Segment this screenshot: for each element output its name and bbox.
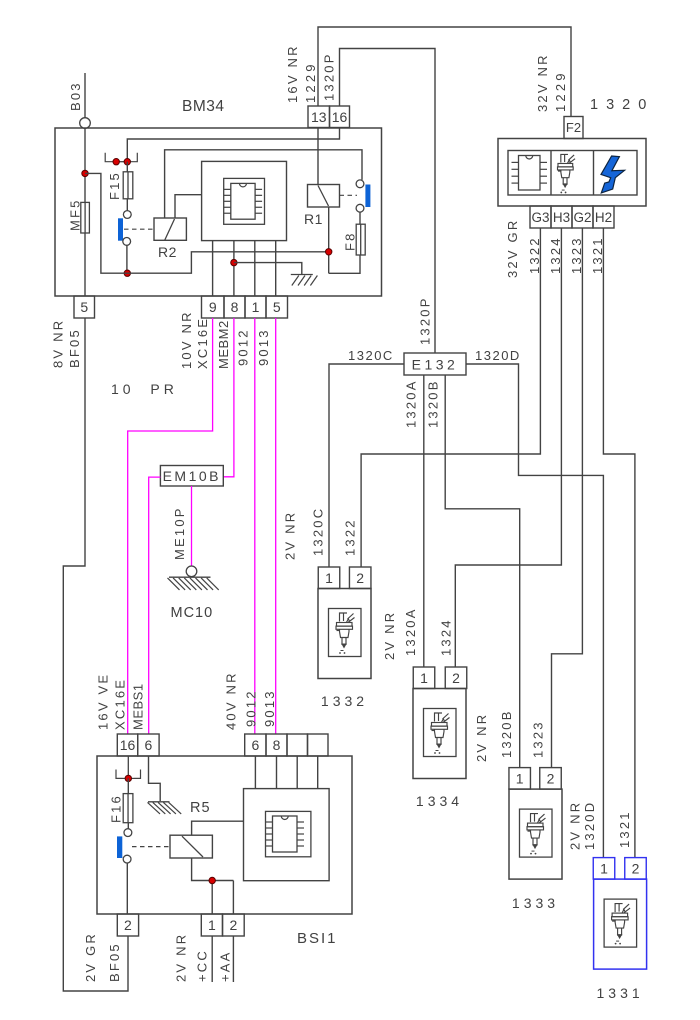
label 1323 at G2: [569, 236, 584, 274]
svg-text:1: 1: [600, 860, 608, 876]
svg-text:40V NR: 40V NR: [224, 671, 239, 730]
splice box E132: [404, 353, 466, 375]
relay R5: [170, 835, 212, 858]
svg-text:2: 2: [452, 670, 460, 686]
svg-text:1320A: 1320A: [403, 607, 418, 656]
label 8V NR: [50, 319, 65, 368]
label 9013 top: [256, 328, 271, 366]
dashed actuator link R2 to switch: [124, 228, 154, 230]
splice EM10B: [160, 466, 223, 487]
label B03: [68, 81, 83, 111]
junction dot F15 terminal left: [113, 159, 119, 165]
label ME10P: [172, 506, 187, 560]
svg-text:16V VE: 16V VE: [95, 673, 110, 730]
ground symbol inside BM34: [291, 275, 318, 286]
svg-text:32V NR: 32V NR: [535, 53, 550, 112]
svg-text:H2: H2: [595, 210, 612, 225]
svg-text:13: 13: [311, 109, 327, 125]
wire R5 coil to module: [192, 821, 244, 835]
svg-text:9: 9: [209, 299, 217, 315]
pin 1 of BM34: [245, 296, 266, 318]
wire 1320D from E132 to injector 1331: [466, 364, 603, 858]
wire switch bottom to bus: [126, 245, 128, 273]
wire R1 switch to F8: [359, 212, 361, 224]
svg-text:R5: R5: [190, 800, 211, 816]
label 1322 at G3: [527, 236, 542, 274]
wire R1 coil bottom to junction: [328, 207, 330, 273]
label 1323 at 1333: [531, 720, 546, 758]
label 40V NR: [224, 671, 239, 730]
svg-text:1320D: 1320D: [582, 801, 597, 850]
svg-text:H3: H3: [553, 210, 570, 225]
dashed actuator link R1 to switch: [340, 194, 358, 196]
label R2: [158, 244, 177, 260]
label 10 PR: [111, 381, 178, 397]
svg-text:1320C: 1320C: [348, 348, 394, 363]
wire 1320A from E132 to injector 1334: [423, 375, 425, 667]
svg-text:2V NR: 2V NR: [174, 933, 189, 982]
ECU box BSI1: [97, 756, 352, 914]
label 10V NR: [179, 310, 194, 369]
wire R5 bottom to pins 1 2: [192, 858, 234, 914]
svg-text:9013: 9013: [262, 689, 277, 727]
wire +AA from pin 2: [232, 936, 234, 982]
label MEBS1: [130, 683, 145, 730]
injector icon in 1320: [558, 154, 576, 193]
label 1321 at H2: [590, 236, 605, 274]
svg-text:1: 1: [420, 670, 428, 686]
label F15: [107, 171, 122, 200]
wire pin13 to relay R1 coil: [317, 128, 319, 185]
label 1320B at 1333: [499, 709, 514, 758]
wire 1322 from G3 to injector 1332: [361, 228, 540, 567]
svg-text:2V NR: 2V NR: [474, 713, 489, 762]
label R1: [304, 211, 323, 227]
lightning bolt icon: [601, 156, 625, 193]
pin 5b of BM34: [266, 296, 288, 318]
svg-text:F16: F16: [108, 794, 123, 823]
pin 1 of BSI1 bottom: [201, 914, 222, 936]
svg-text:2V NR: 2V NR: [382, 611, 397, 660]
svg-text:1320C: 1320C: [311, 507, 326, 556]
svg-text:XC16E: XC16E: [112, 678, 127, 730]
svg-text:1: 1: [208, 917, 216, 933]
pin 6b of BSI1: [245, 734, 266, 756]
label +CC: [195, 949, 210, 982]
svg-text:2V NR: 2V NR: [567, 801, 582, 850]
svg-text:6: 6: [251, 737, 259, 753]
ground symbol MC10: [168, 577, 219, 590]
label XC16E at BSI1: [112, 678, 127, 730]
label 2V NR at 1334: [382, 611, 397, 660]
label 16V NR: [285, 44, 300, 103]
pin F2 of 1320: [564, 117, 583, 139]
module output wires to pins 9 8 1 5: [213, 241, 276, 296]
label 1320D at 1331: [582, 801, 597, 850]
svg-text:MEBS1: MEBS1: [130, 683, 145, 730]
F16 switch contact top: [124, 829, 132, 837]
pin H3 of 1320: [551, 206, 572, 228]
pin blank2 of BSI1: [308, 734, 329, 756]
svg-text:R1: R1: [304, 211, 323, 227]
svg-text:BM34: BM34: [182, 98, 225, 115]
label 1320P at E132: [418, 296, 433, 345]
pin G3 of 1320: [530, 206, 551, 228]
wire 1323 from G2 to injector 1333: [552, 228, 583, 768]
switch contact bottom (F15): [123, 238, 131, 246]
switch contact top (F15): [123, 211, 131, 219]
label MEBM2: [216, 320, 231, 369]
wire BF05 from BM34 pin5 to BSI1 pin2: [63, 318, 128, 991]
inner module frame BSI1: [266, 811, 311, 856]
svg-text:1321: 1321: [617, 810, 632, 848]
fuse MF5 on B03 feed: [81, 129, 90, 297]
wire B03 supply: [84, 73, 86, 118]
label +AA: [218, 950, 233, 982]
svg-text:1320B: 1320B: [426, 379, 441, 428]
svg-text:8V NR: 8V NR: [50, 319, 65, 368]
label 1324 at H3: [548, 236, 563, 274]
label 9012 at BSI1: [244, 689, 259, 727]
wire 9012 pink from pin 1 to BSI1 pin 6: [254, 318, 256, 734]
wire 1321 from H2 to injector 1331: [603, 228, 635, 858]
wire pin 6 to internal ground: [149, 756, 161, 801]
svg-text:10V NR: 10V NR: [179, 310, 194, 369]
label 32V NR at F2: [535, 53, 550, 112]
wire 1229 from pin 13 to F2: [318, 27, 571, 117]
label 1229 left: [303, 61, 318, 103]
label 2V NR at 1332: [283, 511, 298, 560]
label 1320B below E132: [426, 379, 441, 428]
svg-text:ME10P: ME10P: [172, 506, 187, 560]
svg-text:+CC: +CC: [195, 949, 210, 982]
svg-text:1 3 2 0: 1 3 2 0: [590, 97, 648, 113]
label 1320A below E132: [404, 379, 419, 428]
svg-text:BF05: BF05: [107, 942, 122, 982]
svg-text:5: 5: [273, 299, 281, 315]
IC chip U1 in BM34: [224, 183, 262, 219]
svg-text:EM10B: EM10B: [163, 468, 221, 484]
inner icon strip of 1320: [508, 151, 637, 196]
ECU box BM34: [55, 128, 382, 296]
svg-text:G2: G2: [573, 210, 591, 225]
label MF5: [68, 198, 83, 231]
wire 1320C from E132 to injector 1332: [329, 364, 404, 567]
R1 switch blade blue bar: [365, 185, 370, 208]
label 1321 at 1331: [617, 810, 632, 848]
svg-text:1320P: 1320P: [322, 52, 337, 101]
wire ME10P pink from EM10B to ground MC10: [191, 486, 193, 566]
label 1320A at 1334: [403, 607, 418, 656]
pin 16 of BM34: [330, 106, 350, 128]
svg-text:1324: 1324: [439, 618, 454, 656]
label 1320C at 1332: [311, 507, 326, 556]
svg-text:16V NR: 16V NR: [285, 44, 300, 103]
F16 switch contact bottom: [123, 855, 131, 863]
pin 6 of BSI1: [138, 734, 159, 756]
svg-text:1332: 1332: [321, 693, 368, 709]
injector 1333: [509, 768, 562, 911]
svg-text:32V GR: 32V GR: [505, 219, 520, 278]
ECU box 1320: [498, 139, 646, 207]
label 16V VE: [95, 673, 110, 730]
svg-text:1331: 1331: [597, 985, 644, 1001]
ground terminal circle MC10: [186, 566, 197, 577]
svg-text:2V NR: 2V NR: [283, 511, 298, 560]
svg-text:2: 2: [356, 570, 364, 586]
injector 1332: [318, 567, 371, 709]
label BF05 top: [67, 328, 82, 368]
label BM34: [182, 98, 225, 115]
fuse F16: [123, 778, 133, 828]
junction dot on B03 feed: [82, 170, 88, 176]
fuse holder terminal at pin 16: [116, 756, 141, 778]
svg-text:1229: 1229: [553, 70, 568, 112]
wire R2 coil to control module: [175, 195, 202, 218]
svg-text:F8: F8: [343, 231, 358, 251]
svg-text:1333: 1333: [512, 895, 559, 911]
svg-text:16: 16: [120, 737, 136, 753]
svg-text:1: 1: [516, 770, 524, 786]
relay R1: [308, 185, 340, 208]
wire MEBS1 pink from EM10B to BSI1 pin 6: [149, 477, 161, 734]
svg-text:B03: B03: [68, 81, 83, 111]
pin H2 of 1320: [593, 206, 614, 228]
pin G2 of 1320: [572, 206, 593, 228]
wire switch to pin 2 of BSI1: [126, 863, 128, 914]
node B03 terminal circle: [80, 118, 91, 129]
junction dot at F16 terminal: [125, 775, 131, 781]
dashed actuator link R5 to switch: [132, 846, 170, 848]
svg-text:1323: 1323: [531, 720, 546, 758]
pin 8b of BSI1: [266, 734, 287, 756]
label 1324 at 1334: [439, 618, 454, 656]
wire R2 to R1 switch: [165, 150, 362, 218]
relay R2: [154, 218, 186, 240]
pin 5 of BM34 bottom: [74, 296, 95, 318]
wire 1324 from H3 to injector 1334: [455, 228, 561, 667]
wire internal bus MF5 to R1 coil bottom: [85, 173, 329, 273]
label 2V NR at +CC: [174, 933, 189, 982]
svg-text:2: 2: [229, 917, 237, 933]
label 1320P top: [322, 52, 337, 101]
pin 9 of BM34: [202, 296, 225, 318]
junction dot on pin-8 wire: [231, 259, 237, 265]
svg-text:1320P: 1320P: [418, 296, 433, 345]
label F8: [343, 231, 358, 251]
label BSI1: [297, 930, 338, 947]
svg-text:1: 1: [325, 570, 333, 586]
svg-text:BF05: BF05: [67, 328, 82, 368]
label MC10: [171, 605, 214, 621]
wire 9013 pink from pin 5 to BSI1 pin 8: [275, 318, 277, 734]
injector 1334: [413, 667, 467, 809]
label 1322 at 1332: [343, 518, 358, 556]
fuse holder terminals of F15: [105, 153, 137, 162]
svg-text:10 PR: 10 PR: [111, 381, 178, 397]
svg-text:+AA: +AA: [218, 950, 233, 982]
label 32V GR: [505, 219, 520, 278]
F16 switch blade blue bar: [117, 836, 122, 858]
junction dot F15 terminal right: [124, 159, 130, 165]
svg-text:F2: F2: [566, 120, 581, 135]
wire 1320B from E132 to injector 1333: [445, 375, 520, 768]
svg-text:R2: R2: [158, 244, 177, 260]
svg-text:8: 8: [273, 737, 281, 753]
inner module frame: [224, 178, 265, 224]
label 1229 at F2: [553, 70, 568, 112]
svg-text:9012: 9012: [244, 689, 259, 727]
fuse F8: [356, 224, 365, 255]
svg-text:1: 1: [252, 299, 260, 315]
svg-text:XC16E: XC16E: [195, 317, 210, 369]
ground symbol inside BSI1: [148, 802, 182, 814]
pin 2 of BSI1 bottom: [117, 914, 138, 936]
wire +CC from pin 1: [211, 936, 213, 982]
label XC16E top: [195, 317, 210, 369]
svg-text:1320A: 1320A: [404, 379, 419, 428]
module box in BSI1: [244, 789, 330, 881]
junction dot at R1 coil bottom: [326, 249, 332, 255]
svg-text:1334: 1334: [416, 793, 463, 809]
svg-text:2: 2: [124, 917, 132, 933]
label 9013 at BSI1: [262, 689, 277, 727]
R1 switch contact top: [356, 180, 364, 188]
wire XC16E pink from pin 9 to BSI1 pin 16: [128, 318, 213, 734]
label F16: [108, 794, 123, 823]
injector 1331 highlighted blue: [593, 858, 646, 1001]
svg-text:E132: E132: [412, 357, 459, 373]
pin 13 of BM34: [308, 106, 330, 128]
pin 2b of BSI1 bottom: [223, 914, 245, 936]
wire MEBM2 pink from pin 8 to EM10B: [223, 318, 234, 477]
svg-text:MF5: MF5: [68, 198, 83, 231]
label 2V NR at 1333: [474, 713, 489, 762]
label 9012 top: [235, 328, 250, 366]
R1 switch contact bottom: [356, 204, 364, 212]
svg-text:6: 6: [145, 737, 153, 753]
junction dot on bottom bus under F15: [124, 270, 130, 276]
label R5: [190, 800, 211, 816]
svg-text:1322: 1322: [343, 518, 358, 556]
svg-text:MC10: MC10: [171, 605, 214, 621]
label 1 3 2 0: [590, 97, 648, 113]
IC chip U2 in BSI1: [266, 816, 305, 852]
wire F8 bottom loop: [329, 255, 360, 273]
svg-text:1229: 1229: [303, 61, 318, 103]
svg-text:2: 2: [547, 770, 555, 786]
IC chip icon in 1320: [512, 156, 548, 191]
svg-text:G3: G3: [531, 210, 549, 225]
pin 16 of BSI1: [117, 734, 137, 756]
fuse F15: [123, 162, 133, 211]
svg-text:8: 8: [231, 299, 239, 315]
svg-text:BSI1: BSI1: [297, 930, 338, 947]
pin 8 of BM34: [224, 296, 245, 318]
wire to internal ground: [234, 263, 302, 274]
label BF05 bottom: [107, 942, 122, 982]
svg-text:1320B: 1320B: [499, 709, 514, 758]
junction dot under R5: [209, 877, 215, 883]
control module box in BM34: [202, 161, 287, 240]
wire 1320P from pin 16 to E132: [340, 49, 436, 354]
connector wires into BSI1 module: [255, 756, 317, 789]
svg-text:F15: F15: [107, 171, 122, 200]
svg-text:9013: 9013: [256, 328, 271, 366]
svg-text:9012: 9012: [235, 328, 250, 366]
switch blade blue bar (F15 switch): [118, 218, 123, 240]
label 2V NR at 1331: [567, 801, 582, 850]
svg-text:5: 5: [80, 299, 88, 315]
svg-text:2: 2: [632, 860, 640, 876]
svg-text:1320D: 1320D: [475, 348, 521, 363]
svg-text:MEBM2: MEBM2: [216, 320, 231, 369]
label 1320D at E132: [475, 348, 521, 363]
label 2V GR: [83, 932, 98, 982]
label 1320C at E132: [348, 348, 394, 363]
wire pin16 into BM34 to F15: [127, 128, 339, 162]
pin blank1 of BSI1: [287, 734, 308, 756]
svg-text:2V GR: 2V GR: [83, 932, 98, 982]
svg-text:16: 16: [332, 109, 348, 125]
